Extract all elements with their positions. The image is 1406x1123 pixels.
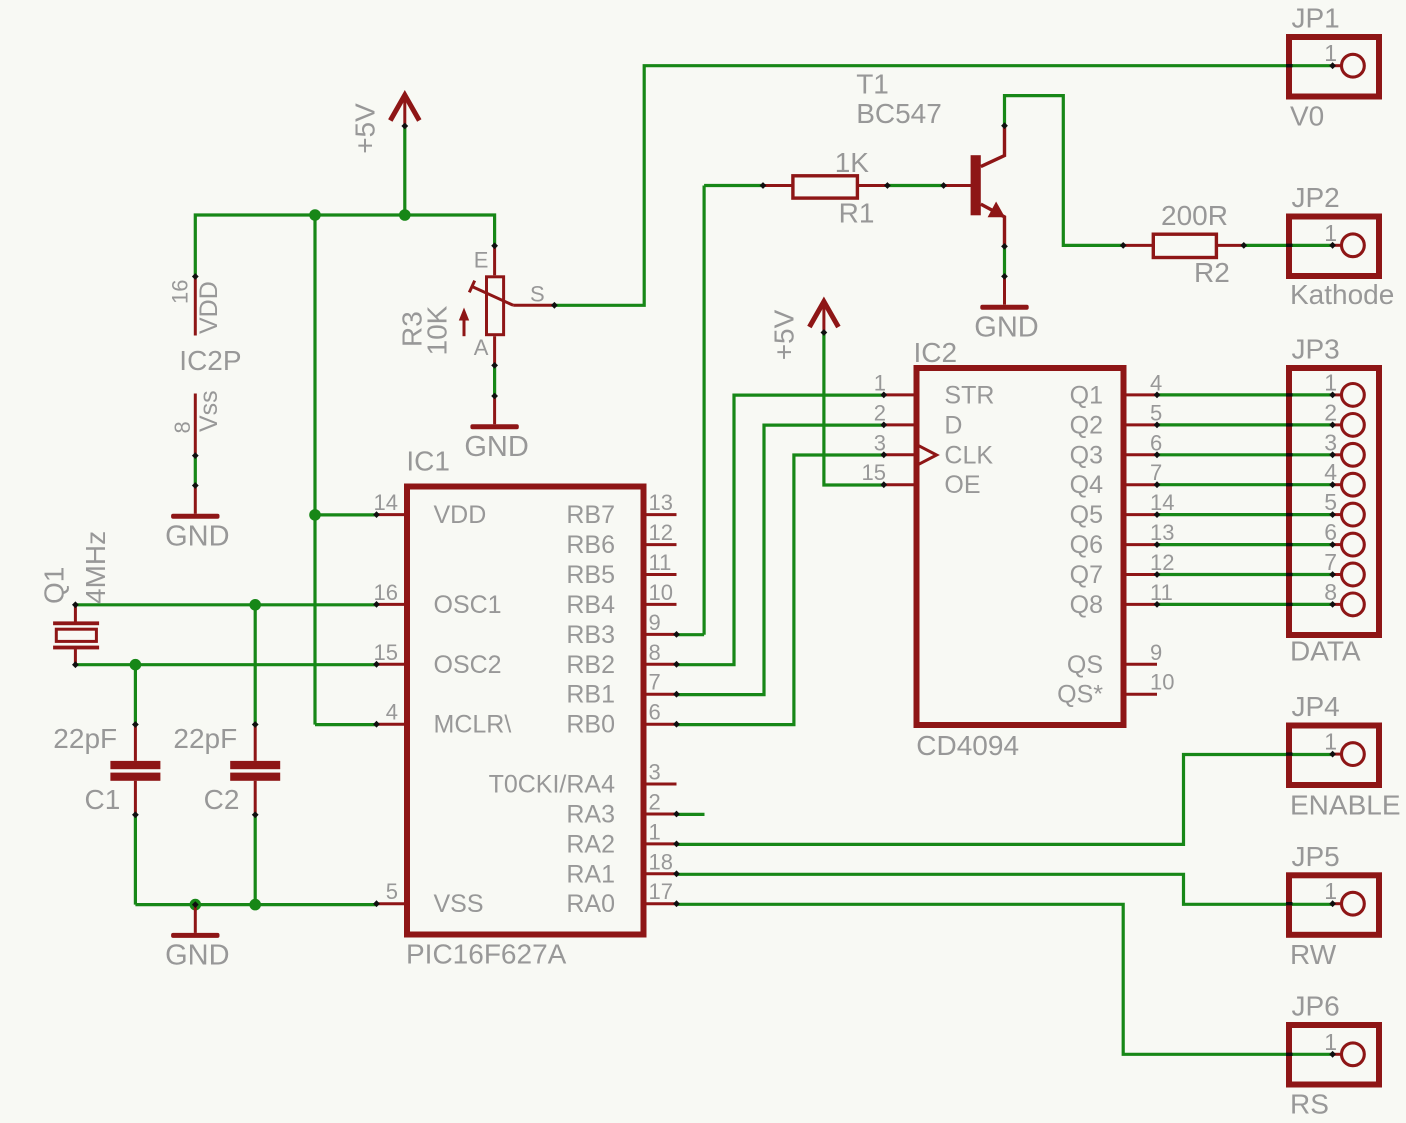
svg-text:PIC16F627A: PIC16F627A <box>406 939 567 970</box>
svg-text:MCLR\: MCLR\ <box>434 711 512 739</box>
wire-over-border mark JP3 <box>1286 423 1293 426</box>
svg-text:Q1: Q1 <box>39 567 70 604</box>
svg-text:RB3: RB3 <box>566 621 615 649</box>
svg-text:2: 2 <box>874 400 886 425</box>
svg-text:R2: R2 <box>1194 257 1230 288</box>
R3 pin E lead <box>493 246 496 275</box>
+5V supply symbol (top left) <box>390 95 419 121</box>
wire net RB2 to IC2 STR <box>677 395 884 665</box>
svg-text:14: 14 <box>1150 490 1174 515</box>
IC1 pin 14 VDD stub <box>376 513 407 516</box>
svg-text:1K: 1K <box>835 147 870 178</box>
svg-text:2: 2 <box>649 790 661 815</box>
IC1 pin 17 RA0 stub <box>644 902 677 905</box>
svg-text:11: 11 <box>1150 580 1173 605</box>
IC2 pin 15 OE stub <box>884 483 917 486</box>
wire net Q4 to JP3 pad 4 <box>1157 483 1333 486</box>
R3 adjust arrow <box>463 313 466 336</box>
svg-text:10K: 10K <box>422 305 453 355</box>
svg-text:T0CKI/RA4: T0CKI/RA4 <box>489 771 616 799</box>
svg-text:Q6: Q6 <box>1070 531 1103 559</box>
svg-text:STR: STR <box>944 381 994 409</box>
svg-text:7: 7 <box>1324 549 1337 575</box>
svg-text:JP3: JP3 <box>1292 334 1340 365</box>
IC2 pin 12 Q7 stub <box>1124 573 1158 576</box>
svg-text:GND: GND <box>165 521 229 553</box>
IC1 box <box>407 487 644 935</box>
svg-text:+5V: +5V <box>349 103 380 154</box>
svg-text:JP2: JP2 <box>1292 182 1340 213</box>
T1 emitter <box>981 204 1005 247</box>
svg-text:A: A <box>474 335 489 360</box>
svg-text:7: 7 <box>1150 460 1162 485</box>
wire net RB1 to IC2 D <box>677 425 884 694</box>
svg-text:6: 6 <box>649 700 661 725</box>
ground symbol below IC2P <box>194 486 197 514</box>
svg-text:OSC1: OSC1 <box>434 591 502 619</box>
svg-text:Q7: Q7 <box>1070 561 1103 589</box>
IC1 pin 11 RB5 stub <box>644 573 677 576</box>
svg-text:RB5: RB5 <box>566 561 615 589</box>
svg-text:VDD: VDD <box>195 281 223 334</box>
svg-text:JP5: JP5 <box>1292 841 1340 872</box>
svg-text:8: 8 <box>1324 579 1337 605</box>
svg-text:QS: QS <box>1067 651 1103 679</box>
wire net Q6 to JP3 pad 6 <box>1157 543 1333 546</box>
JP3 pad 3 <box>1333 453 1342 456</box>
svg-text:10: 10 <box>1150 670 1174 695</box>
svg-text:13: 13 <box>1150 520 1174 545</box>
wire net RW: RA1 to JP5 <box>677 874 1333 904</box>
svg-text:RB2: RB2 <box>566 651 615 679</box>
svg-text:16: 16 <box>168 280 193 304</box>
wire-over-border mark JP5 <box>1286 902 1293 905</box>
junction +5V at symbol stem <box>399 209 411 221</box>
svg-text:17: 17 <box>649 879 673 904</box>
svg-text:CLK: CLK <box>944 441 993 469</box>
svg-text:6: 6 <box>1324 519 1337 545</box>
svg-text:1: 1 <box>649 819 661 844</box>
wire-over-border mark JP3 <box>1286 483 1293 486</box>
wire net OSC1: crystal top to IC1 pin 16 <box>75 603 376 606</box>
JP2 pad 1 <box>1333 244 1342 247</box>
wire net T1 collector to R2 <box>1005 96 1124 246</box>
wire-over-border mark JP1 <box>1286 64 1293 67</box>
svg-text:RB1: RB1 <box>566 681 615 709</box>
connector JP1 box <box>1289 37 1379 97</box>
connector JP3 box <box>1289 368 1379 635</box>
R1 right lead <box>857 184 887 187</box>
wire net Q7 to JP3 pad 7 <box>1157 573 1333 576</box>
svg-text:200R: 200R <box>1161 200 1228 231</box>
svg-text:2: 2 <box>1324 399 1337 425</box>
junction +5V at VDD spur <box>309 509 321 521</box>
wire +5V net: stem from +5V symbol down to junction <box>403 126 406 215</box>
wire-over-border mark JP6 <box>1286 1053 1293 1056</box>
wire-over-border mark JP2 <box>1286 244 1293 247</box>
svg-text:16: 16 <box>374 580 398 605</box>
wire net Q3 to JP3 pad 3 <box>1157 453 1333 456</box>
IC2 pin 4 Q1 stub <box>1124 393 1158 396</box>
junction OSC1 at C2 drop <box>249 599 261 611</box>
svg-text:RB0: RB0 <box>566 711 615 739</box>
svg-text:IC2: IC2 <box>914 337 958 368</box>
svg-text:Q3: Q3 <box>1070 441 1103 469</box>
IC1 pin 6 RB0 stub <box>644 723 677 726</box>
svg-text:RS: RS <box>1290 1089 1329 1120</box>
wire net RB3 to R1 <box>677 186 764 635</box>
T1 emitter arrow <box>988 202 1005 218</box>
JP3 pad 5 <box>1333 513 1342 516</box>
IC1 pin 3 T0CKI/RA4 stub <box>644 783 677 786</box>
svg-text:RB4: RB4 <box>566 591 615 619</box>
wire-over-border mark JP4 <box>1286 752 1293 755</box>
svg-text:R1: R1 <box>839 198 875 229</box>
R2 body <box>1153 234 1216 257</box>
svg-text:Q5: Q5 <box>1070 501 1103 529</box>
IC2 CLK clock wedge <box>917 445 937 466</box>
IC2 pin 9 QS stub <box>1124 663 1158 666</box>
svg-text:13: 13 <box>649 490 673 515</box>
svg-text:RA2: RA2 <box>566 830 615 858</box>
IC1 pin 16 OSC1 stub <box>376 603 407 606</box>
IC2P pin 8 Vss stub <box>194 394 197 456</box>
svg-text:D: D <box>944 411 962 439</box>
T1 base bar <box>971 155 981 215</box>
T1 collector <box>981 126 1005 167</box>
junction +5V at MCLR drop <box>309 209 321 221</box>
svg-text:4MHz: 4MHz <box>80 531 111 604</box>
junction OSC2 at C1 drop <box>130 659 142 671</box>
svg-text:GND: GND <box>165 940 229 972</box>
wire net RS: RA0 to JP6 <box>677 904 1333 1054</box>
T1 base lead <box>944 184 971 187</box>
wire net +5V to IC2 OE <box>824 333 884 486</box>
IC1 pin 15 OSC2 stub <box>376 663 407 666</box>
wire GND net: T1 emitter to ground <box>1003 247 1006 277</box>
JP3 pad 2 <box>1333 423 1342 426</box>
svg-text:9: 9 <box>649 610 661 635</box>
svg-text:VDD: VDD <box>434 501 487 529</box>
svg-text:5: 5 <box>386 879 398 904</box>
svg-text:3: 3 <box>649 760 661 785</box>
svg-text:11: 11 <box>649 550 672 575</box>
wire +5V net: IC2P VDD up, across top, down to R3 E <box>195 215 494 277</box>
pin connection dots <box>192 273 199 280</box>
wire net stub on RA3 <box>677 813 705 816</box>
ground symbol below C1/C2 <box>194 905 197 933</box>
IC2 pin 7 Q4 stub <box>1124 483 1158 486</box>
svg-text:15: 15 <box>862 460 886 485</box>
IC2 pin 6 Q3 stub <box>1124 453 1158 456</box>
wire-over-border mark JP3 <box>1286 573 1293 576</box>
wire net R2 to JP2 <box>1244 244 1333 247</box>
wire GND net: R3 A to ground <box>493 365 496 396</box>
svg-text:JP1: JP1 <box>1292 3 1340 34</box>
wire-over-border mark JP3 <box>1286 393 1293 396</box>
wire net Q5 to JP3 pad 5 <box>1157 513 1333 516</box>
wire net OSC1: drop to C2 <box>254 605 257 723</box>
svg-text:12: 12 <box>1150 550 1174 575</box>
svg-text:22pF: 22pF <box>53 723 117 754</box>
wire net OSC2: crystal bottom to IC1 pin 15 <box>75 663 376 666</box>
R2 left lead <box>1123 244 1153 247</box>
JP3 pad 1 <box>1333 393 1342 396</box>
svg-text:RW: RW <box>1290 939 1337 970</box>
junction GND at bottom ground <box>190 899 202 911</box>
IC1 pin 18 RA1 stub <box>644 872 677 875</box>
svg-text:GND: GND <box>464 431 528 463</box>
capacitor C2 <box>254 723 257 815</box>
svg-text:7: 7 <box>649 670 661 695</box>
IC1 pin 7 RB1 stub <box>644 693 677 696</box>
svg-text:1: 1 <box>1324 1029 1337 1055</box>
JP4 pad 1 <box>1333 753 1342 756</box>
wire net Q2 to JP3 pad 2 <box>1157 423 1333 426</box>
svg-text:8: 8 <box>649 640 661 665</box>
wire +5V net: spur to IC1 pin 4 MCLR <box>315 723 377 726</box>
svg-text:8: 8 <box>170 421 195 433</box>
svg-text:RB6: RB6 <box>566 531 615 559</box>
svg-text:RA1: RA1 <box>566 860 615 888</box>
wire net Q1 to JP3 pad 1 <box>1157 393 1333 396</box>
IC1 pin 8 RB2 stub <box>644 663 677 666</box>
svg-text:V0: V0 <box>1290 101 1324 132</box>
IC2 pin 13 Q6 stub <box>1124 543 1158 546</box>
connector JP6 box <box>1289 1025 1379 1085</box>
svg-text:22pF: 22pF <box>173 723 237 754</box>
JP3 pad 6 <box>1333 543 1342 546</box>
R3 pin A lead <box>493 336 496 365</box>
connector JP2 box <box>1289 217 1379 277</box>
IC2P pin 16 VDD stub <box>194 277 197 336</box>
svg-text:RA0: RA0 <box>566 890 615 918</box>
svg-text:5: 5 <box>1324 489 1337 515</box>
wire net R1 to T1 base <box>887 184 943 187</box>
wire-over-border mark JP3 <box>1286 513 1293 516</box>
IC2 box <box>917 368 1124 725</box>
svg-text:14: 14 <box>374 490 398 515</box>
svg-text:QS*: QS* <box>1057 681 1103 709</box>
svg-text:1: 1 <box>1324 220 1337 246</box>
svg-text:10: 10 <box>649 580 673 605</box>
IC1 pin 5 VSS stub <box>376 902 407 905</box>
R3 wiper <box>469 281 513 306</box>
JP3 pad 4 <box>1333 483 1342 486</box>
IC2 pin 5 Q2 stub <box>1124 423 1158 426</box>
svg-text:BC547: BC547 <box>856 98 942 129</box>
svg-text:1: 1 <box>1324 40 1337 66</box>
svg-text:Kathode: Kathode <box>1290 279 1394 310</box>
svg-text:+5V: +5V <box>768 309 799 360</box>
svg-text:S: S <box>530 282 545 307</box>
svg-text:GND: GND <box>974 312 1038 344</box>
svg-text:C2: C2 <box>204 784 240 815</box>
R3 body <box>487 277 504 335</box>
svg-text:VSS: VSS <box>434 890 484 918</box>
JP3 pad 7 <box>1333 573 1342 576</box>
svg-text:OSC2: OSC2 <box>434 651 502 679</box>
svg-text:12: 12 <box>649 520 673 545</box>
JP1 pad 1 <box>1333 64 1342 67</box>
wire +5V net: drop to IC1 MCLR <box>313 215 316 725</box>
connector JP5 box <box>1289 875 1379 935</box>
svg-text:OE: OE <box>944 471 980 499</box>
IC1 pin 9 RB3 stub <box>644 633 677 636</box>
wire net Q8 to JP3 pad 8 <box>1157 603 1333 606</box>
svg-text:1: 1 <box>1324 878 1337 904</box>
svg-text:18: 18 <box>649 849 673 874</box>
connector JP4 box <box>1289 726 1379 786</box>
svg-text:JP4: JP4 <box>1292 691 1340 722</box>
svg-text:CD4094: CD4094 <box>916 730 1019 761</box>
JP5 pad 1 <box>1333 902 1342 905</box>
IC2 pin 2 D stub <box>884 423 917 426</box>
R1 body <box>793 176 858 198</box>
svg-text:IC1: IC1 <box>406 446 450 477</box>
ground symbol below T1 emitter <box>1003 276 1006 304</box>
svg-text:RA3: RA3 <box>566 801 615 829</box>
wire net ENABLE: RA2 to JP4 <box>677 755 1333 845</box>
svg-text:15: 15 <box>374 640 398 665</box>
svg-text:T1: T1 <box>856 69 889 100</box>
svg-text:DATA: DATA <box>1290 636 1361 667</box>
IC1 pin 12 RB6 stub <box>644 543 677 546</box>
svg-text:Vss: Vss <box>195 390 223 432</box>
JP3 pad 8 <box>1333 603 1342 606</box>
svg-text:1: 1 <box>874 370 886 395</box>
wire +5V net: spur to IC1 pin 14 VDD <box>315 513 377 516</box>
IC2 pin 1 STR stub <box>884 393 917 396</box>
svg-text:RB7: RB7 <box>566 501 615 529</box>
svg-text:3: 3 <box>1324 429 1337 455</box>
wire net OSC2: drop to C1 <box>134 665 137 724</box>
R3 pin S lead <box>513 304 554 307</box>
IC1 pin 2 RA3 stub <box>644 813 677 816</box>
svg-text:9: 9 <box>1150 640 1162 665</box>
svg-text:E: E <box>474 248 489 273</box>
IC1 pin 1 RA2 stub <box>644 842 677 845</box>
IC2 pin 11 Q8 stub <box>1124 603 1158 606</box>
IC2 pin 10 QS* stub <box>1124 693 1158 696</box>
capacitor C1 <box>134 723 137 815</box>
wire GND net: IC2P Vss to ground <box>194 456 197 486</box>
svg-text:1: 1 <box>1324 729 1337 755</box>
IC1 pin 4 MCLR\ stub <box>376 723 407 726</box>
svg-text:Q4: Q4 <box>1070 471 1103 499</box>
JP6 pad 1 <box>1333 1053 1342 1056</box>
R2 right lead <box>1216 244 1243 247</box>
svg-text:1: 1 <box>1324 369 1337 395</box>
IC2 pin 3 CLK stub <box>884 453 917 456</box>
svg-text:IC2P: IC2P <box>179 345 241 376</box>
svg-text:4: 4 <box>1150 370 1162 395</box>
svg-text:4: 4 <box>386 700 398 725</box>
junction GND at C2 bottom <box>249 899 261 911</box>
wire GND net: C1,C2 bottoms to IC1 VSS <box>135 815 376 905</box>
R1 left lead <box>763 184 793 187</box>
svg-text:3: 3 <box>874 430 886 455</box>
svg-text:JP6: JP6 <box>1292 991 1340 1022</box>
wire-over-border mark JP3 <box>1286 453 1293 456</box>
IC1 pin 10 RB4 stub <box>644 603 677 606</box>
svg-text:4: 4 <box>1324 459 1337 485</box>
svg-text:Q1: Q1 <box>1070 381 1103 409</box>
wire net V0: R3 wiper S to JP1 <box>554 66 1332 306</box>
IC1 pin 13 RB7 stub <box>644 513 677 516</box>
svg-text:5: 5 <box>1150 400 1162 425</box>
+5V supply symbol (above IC2 OE) <box>809 302 838 328</box>
svg-text:6: 6 <box>1150 430 1162 455</box>
wire-over-border mark JP3 <box>1286 543 1293 546</box>
ground symbol below R3 <box>493 396 496 424</box>
svg-text:Q8: Q8 <box>1070 591 1103 619</box>
IC2 pin 14 Q5 stub <box>1124 513 1158 516</box>
svg-text:Q2: Q2 <box>1070 411 1103 439</box>
wire-over-border mark JP3 <box>1286 603 1293 606</box>
crystal Q1 4MHz <box>74 605 77 665</box>
wire net RB0 to IC2 CLK <box>677 455 884 725</box>
svg-text:ENABLE: ENABLE <box>1290 790 1401 821</box>
svg-text:C1: C1 <box>85 784 121 815</box>
